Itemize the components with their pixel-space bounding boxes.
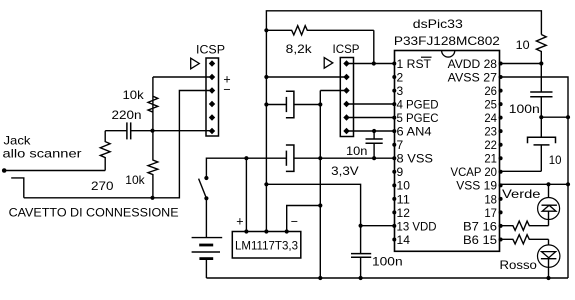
svg-text:ICSP: ICSP xyxy=(196,43,225,57)
svg-text:220n: 220n xyxy=(112,108,142,122)
node jog / AVSS rail xyxy=(566,115,570,119)
wire 100n to AVSS rail jog xyxy=(541,116,568,118)
svg-text:5 PGEC: 5 PGEC xyxy=(397,111,439,125)
capacitor C input (electrolytic) on VSS wire xyxy=(285,151,287,166)
resistor 8,2k (horizontal) xyxy=(266,26,373,35)
svg-text:VCAP 20: VCAP 20 xyxy=(451,165,498,179)
connector ICSP2 body xyxy=(340,58,353,137)
svg-text:AVSS 27: AVSS 27 xyxy=(448,70,498,84)
svg-text:100n: 100n xyxy=(372,255,403,269)
node Rosso cathode / ground rail xyxy=(546,276,550,280)
node 100n / ground rail xyxy=(359,276,363,280)
node VDD riser / pin13 wire xyxy=(359,224,363,228)
node 3.3V rail / ICSP2 pin2 xyxy=(264,75,268,79)
node ground rail / cap xyxy=(318,102,322,106)
wire VSS rail top (switch to input cap) xyxy=(206,158,286,178)
svg-text:VSS 19: VSS 19 xyxy=(456,179,497,193)
switch S1 blade xyxy=(199,179,207,199)
wire pin13 VDD xyxy=(361,225,394,227)
LED Verde (green) xyxy=(548,184,550,197)
svg-text:dsPic33: dsPic33 xyxy=(413,17,463,31)
svg-text:Jack: Jack xyxy=(4,134,32,148)
node junction 10k-bottom / sleeve wire xyxy=(150,196,154,200)
svg-text:270: 270 xyxy=(91,179,114,193)
svg-text:LM1117T3,3: LM1117T3,3 xyxy=(235,238,298,252)
svg-text:17: 17 xyxy=(484,206,497,220)
jack tip terminal node xyxy=(2,168,7,173)
node VSS19 / Verde anode xyxy=(546,182,550,186)
battery B1 plate long top xyxy=(192,237,223,239)
node AN4 / 10n xyxy=(372,129,376,133)
wire jack sleeve to ICSP1 pin3 riser xyxy=(24,91,212,198)
resistor R B7 (horizontal) xyxy=(501,221,549,230)
svg-text:10n: 10n xyxy=(346,144,367,158)
node LM1117 OUT pin xyxy=(264,229,268,233)
wire B7 resistor to Verde xyxy=(548,220,550,226)
capacitor C 100n AVDD xyxy=(540,64,542,93)
wire ground rail vertical xyxy=(319,91,321,279)
connector ICSP2 pin1 arrow xyxy=(324,58,333,69)
svg-text:9: 9 xyxy=(397,165,404,179)
wire C right to ground rail xyxy=(294,104,320,106)
svg-text:Rosso: Rosso xyxy=(500,258,538,272)
LED Rosso (red) xyxy=(538,245,560,267)
wire jack tip to R 270 xyxy=(4,170,105,172)
capacitor C 100n VDD xyxy=(351,253,371,255)
wire 3.3V feed to VDD xyxy=(266,184,360,253)
svg-text:25: 25 xyxy=(484,98,497,112)
capacitor C 10n xyxy=(373,131,375,139)
node MCLR junction xyxy=(372,61,376,65)
wire switch to battery xyxy=(205,198,207,237)
connector ICSP1 body xyxy=(206,58,219,136)
regulator U2 LM1117 body xyxy=(232,232,300,259)
switch S1 lower contact xyxy=(204,196,208,200)
svg-text:23: 23 xyxy=(484,125,497,139)
node AVDD / R10 / C100n xyxy=(539,61,543,65)
svg-text:3,3V: 3,3V xyxy=(331,164,359,178)
connector ICSP1 pins xyxy=(209,60,215,66)
svg-text:1 RST: 1 RST xyxy=(397,57,432,71)
wire VCAP pin20 xyxy=(501,170,542,172)
svg-text:AVDD 28: AVDD 28 xyxy=(448,57,498,71)
node 3.3V rail / feed xyxy=(264,182,268,186)
svg-text:18: 18 xyxy=(484,192,497,206)
node VSS-rail / LM1117 IN xyxy=(244,156,248,160)
wire ground bottom rail xyxy=(206,277,568,279)
wire battery minus to ground rail xyxy=(205,259,207,278)
svg-text:allo scanner: allo scanner xyxy=(3,147,82,161)
wire ICSP2 pin3 to ground rail xyxy=(320,90,346,92)
svg-text:12: 12 xyxy=(397,206,411,220)
wire 10k top to ICSP1 pin2 xyxy=(153,76,212,78)
svg-text:ICSP: ICSP xyxy=(333,42,360,56)
node A junction (220n/10k/10k/ICSP1-6) xyxy=(150,129,154,133)
svg-text:Verde: Verde xyxy=(502,187,541,201)
wire 3.3V rail (LM1117 OUT to top wire) xyxy=(266,11,541,232)
node ground rail / LM GND xyxy=(318,203,322,207)
connector ICSP1 pin1 arrow xyxy=(191,58,200,69)
svg-text:10: 10 xyxy=(516,38,530,52)
svg-text:B6 15: B6 15 xyxy=(463,233,497,247)
node VSS wire / 10n xyxy=(372,156,376,160)
svg-text:8,2k: 8,2k xyxy=(286,42,313,56)
node LM1117 IN pin xyxy=(244,229,248,233)
resistor 10 AVDD (vertical) xyxy=(536,35,546,64)
resistor 10k R_up (vertical) xyxy=(148,77,158,131)
battery B1 plate long bottom xyxy=(192,251,220,253)
svg-text:21: 21 xyxy=(484,152,497,166)
IC right pin dots 28-15 xyxy=(499,62,503,66)
wire jack sleeve lead xyxy=(11,178,24,198)
switch S1 upper contact xyxy=(204,176,208,180)
resistor 10k R_down (vertical) xyxy=(148,131,158,198)
svg-text:11: 11 xyxy=(397,192,411,206)
svg-text:10: 10 xyxy=(397,179,411,193)
svg-text:22: 22 xyxy=(484,138,497,152)
node 3.3V rail / 8.2k xyxy=(264,28,268,32)
svg-text:+: + xyxy=(236,214,243,228)
resistor R B6 (horizontal) xyxy=(501,235,549,244)
resistor 270 (vertical) xyxy=(100,131,110,171)
wire C220n to node A xyxy=(131,130,153,132)
capacitor C 10u VCAP (electrolytic vertical) xyxy=(540,117,542,137)
svg-text:2: 2 xyxy=(397,70,404,84)
wire ICSP2 pin6 to IC pin6 xyxy=(347,130,395,132)
svg-text:−: − xyxy=(291,214,298,228)
node 100n / jog xyxy=(539,115,543,119)
svg-text:14: 14 xyxy=(397,233,411,247)
svg-text:8 VSS: 8 VSS xyxy=(397,152,434,166)
node LM1117 GND pin xyxy=(285,229,289,233)
wire ICSP2 pin2 to 3.3V rail xyxy=(266,76,346,78)
node VSS19 / AVSS rail xyxy=(566,182,570,186)
wire ICSP2 pin4 to IC pin4 xyxy=(347,103,395,105)
svg-text:10: 10 xyxy=(549,153,562,167)
wire input cap to IC pin8 xyxy=(294,157,394,159)
svg-text:P33FJ128MC802: P33FJ128MC802 xyxy=(394,34,500,48)
wire ICSP2 pin1 to IC pin1 xyxy=(347,63,395,65)
svg-text:26: 26 xyxy=(484,84,497,98)
svg-text:6 AN4: 6 AN4 xyxy=(397,125,432,139)
wire AVSS pin27 to right rail xyxy=(501,77,568,278)
node ground rail / VSS wire xyxy=(318,156,322,160)
svg-text:100n: 100n xyxy=(509,102,540,116)
svg-text:B7 16: B7 16 xyxy=(463,219,497,233)
svg-text:7: 7 xyxy=(397,138,404,152)
wire ICSP2 pin5 to IC pin5 xyxy=(347,117,395,119)
wire LM1117 IN from VSS-rail xyxy=(245,158,247,231)
svg-text:CAVETTO DI CONNESSIONE: CAVETTO DI CONNESSIONE xyxy=(9,208,179,220)
svg-text:10k: 10k xyxy=(123,88,145,102)
wire R270 top to C 220n xyxy=(105,130,127,132)
svg-text:−: − xyxy=(223,82,230,96)
node ground rail / bottom xyxy=(318,276,322,280)
svg-text:3: 3 xyxy=(397,84,404,98)
capacitor C 220n xyxy=(126,122,128,139)
svg-text:13 VDD: 13 VDD xyxy=(397,219,437,233)
battery B1 plate short 1 xyxy=(199,244,213,247)
IC left pin dots 1-14 xyxy=(392,62,396,66)
svg-text:24: 24 xyxy=(484,111,497,125)
wire 8.2k to MCLR node xyxy=(373,30,375,63)
wire node A to ICSP1 pin6 xyxy=(153,130,213,132)
wire LM1117 GND riser xyxy=(287,206,321,232)
wire VSS pin19 to LEDs xyxy=(501,183,568,185)
IC U1 body xyxy=(395,51,500,252)
wire B6 resistor to Rosso xyxy=(548,239,550,245)
battery B1 plate short 2 xyxy=(199,257,213,260)
svg-text:10k: 10k xyxy=(125,173,145,187)
wire 3.3V rail to C left xyxy=(266,104,286,106)
capacitor C 3v3 (electrolytic) decoupling xyxy=(285,97,287,112)
svg-text:4 PGED: 4 PGED xyxy=(397,98,439,112)
wire AVDD pin28 xyxy=(501,63,542,65)
IC pin1 RST overline xyxy=(421,56,432,58)
node 3.3V rail / cap xyxy=(264,102,268,106)
connector ICSP2 pins xyxy=(343,60,349,66)
